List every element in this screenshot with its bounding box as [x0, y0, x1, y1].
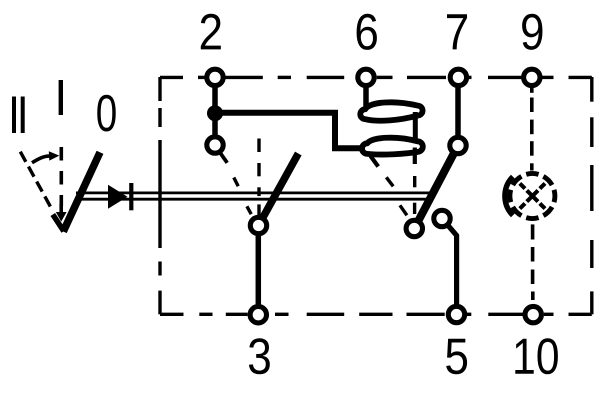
lamp (dashed circle with X): [510, 173, 555, 218]
curved arrow (lever motion): [32, 151, 59, 163]
label 7: [447, 14, 467, 49]
position marker II: [12, 97, 25, 134]
lever (position 0, solid): [63, 152, 100, 231]
terminal 7: [450, 69, 466, 85]
coil right tick: [413, 148, 417, 165]
contact C4: [434, 210, 450, 226]
terminal 6 stem: [363, 83, 369, 108]
contact C1 tail tick: [220, 152, 227, 163]
dashed blade (C2 vertical): [257, 139, 260, 216]
coil upper loop: [360, 102, 422, 120]
label 5: [446, 339, 467, 375]
blade B solid (C5 to C3): [414, 146, 458, 229]
lever position I dashed line with arrow: [56, 147, 67, 222]
frame right edge: [590, 77, 593, 314]
coil loop connector: [413, 112, 418, 142]
lamp reflector arc: [505, 177, 513, 216]
terminal 9: [524, 69, 540, 85]
label 9: [522, 14, 542, 50]
label 6: [357, 14, 377, 50]
coil left tick: [371, 156, 379, 167]
dashed blade (C1 to C2 diagonal): [234, 178, 256, 222]
terminal 2 stem: [212, 83, 218, 110]
terminal 6: [358, 69, 374, 85]
terminal 10 dashed stem: [531, 224, 535, 300]
coil lower loop: [362, 138, 423, 155]
label 3: [249, 338, 270, 374]
frame top edge: [160, 76, 592, 79]
contact C3: [406, 220, 422, 236]
contact C4 tail to terminal 5: [448, 225, 457, 305]
lever position II dashed line: [20, 152, 51, 208]
position marker I: [59, 80, 63, 115]
frame bottom edge: [160, 313, 592, 316]
lever tip tick: [53, 215, 64, 232]
dashed blade (coil right to C3, vertical): [413, 176, 417, 214]
stem junction to contact C1: [212, 117, 218, 140]
terminal 7 stem: [455, 83, 461, 137]
linkage arrow: [108, 185, 128, 209]
mechanical linkage (double line): [76, 193, 431, 199]
contact C2: [250, 217, 266, 233]
label 2: [201, 14, 221, 50]
wire junction to coil: [219, 113, 362, 148]
dashed blade (coil left to C3, diagonal): [386, 177, 407, 215]
junction node: [207, 105, 223, 121]
label 10: [515, 338, 558, 374]
frame left edge: [158, 77, 161, 314]
linkage stop bar: [129, 183, 133, 210]
terminal 3 stem: [256, 234, 262, 305]
terminal 3: [250, 307, 266, 323]
terminal 10: [525, 306, 541, 322]
blade A solid (from C2 up-right): [259, 154, 299, 226]
terminal 2: [207, 69, 223, 85]
contact C1: [207, 137, 223, 153]
terminal 5: [448, 306, 464, 322]
label 0 (lever position): [97, 95, 115, 132]
contact C5: [450, 137, 466, 153]
terminal 9 dashed stem: [530, 88, 534, 171]
